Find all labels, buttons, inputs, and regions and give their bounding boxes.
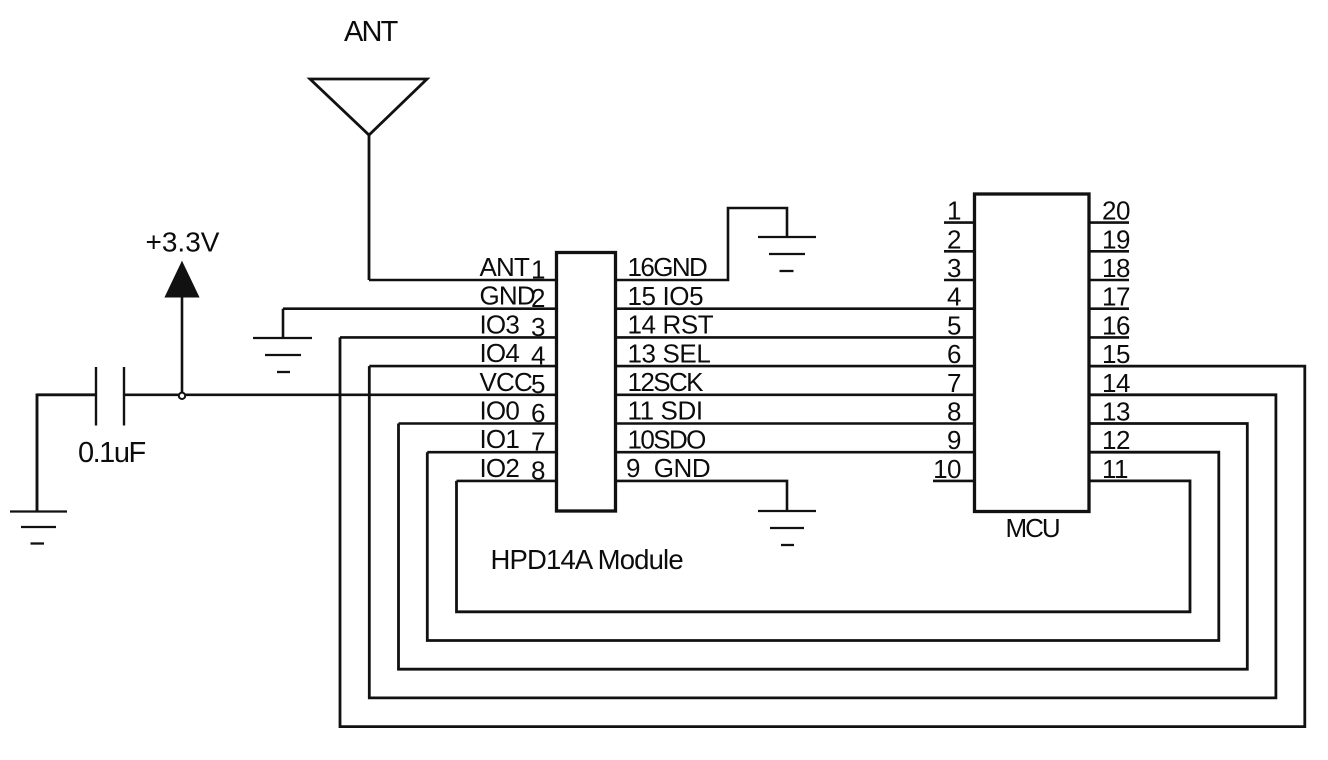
- wire 14 RST to MCU pin 5: [616, 336, 974, 339]
- U1 pin label IO3 3: [480, 309, 546, 341]
- wire antenna to HPD14A pin 1 ANT: [369, 279, 556, 282]
- U1 pin label GND 2: [480, 281, 546, 313]
- wire HPD14A pin 2 GND row: [283, 307, 556, 310]
- svg-text:1: 1: [947, 196, 961, 226]
- svg-text:15: 15: [1102, 339, 1130, 369]
- svg-text:8: 8: [531, 455, 545, 485]
- svg-text:10: 10: [933, 454, 961, 484]
- wire loop IO4 to MCU pin 14: [369, 366, 1276, 698]
- svg-text:14: 14: [1102, 368, 1130, 398]
- U2 pin 20 stub: [1089, 221, 1129, 224]
- power symbol +3.3V: [166, 263, 198, 395]
- U1 pin label IO0 6: [480, 396, 546, 428]
- IC U1 HPD14A body: [557, 253, 616, 512]
- ground at GND2: [253, 338, 312, 372]
- antenna ANT symbol: [310, 79, 427, 280]
- U1 pin label IO1 7: [480, 424, 546, 456]
- svg-text:HPD14A Module: HPD14A Module: [491, 544, 684, 575]
- wire IO0 row: [399, 422, 557, 425]
- U2 pin 17 stub: [1089, 307, 1129, 310]
- svg-text:7: 7: [531, 427, 545, 457]
- ground at pin 16 GND: [758, 237, 816, 271]
- ground below C1: [10, 512, 67, 544]
- svg-text:IO3: IO3: [480, 309, 520, 339]
- svg-text:16GND: 16GND: [628, 252, 708, 282]
- svg-text:IO2: IO2: [480, 453, 520, 483]
- svg-text:11 SDI: 11 SDI: [628, 396, 703, 426]
- svg-text:17: 17: [1102, 282, 1130, 312]
- svg-text:2: 2: [531, 283, 545, 313]
- svg-text:VCC: VCC: [480, 367, 533, 397]
- ground at pin 9 GND: [758, 511, 816, 545]
- wire IO1 row: [427, 451, 556, 454]
- U2 pin 19 stub: [1089, 250, 1129, 253]
- wire 10 SDO to MCU pin 9: [616, 451, 974, 454]
- svg-text:9 GND: 9 GND: [626, 453, 710, 483]
- wire 11 SDI to MCU pin 8: [616, 422, 974, 425]
- svg-text:4: 4: [947, 282, 961, 312]
- wire 15 IO5 to MCU pin 4: [616, 307, 974, 310]
- U2 pin 16 stub: [1089, 336, 1129, 339]
- svg-text:IO1: IO1: [480, 424, 520, 454]
- wire HPD14A pin 16 GND up: [616, 208, 787, 280]
- svg-text:IO0: IO0: [480, 396, 520, 426]
- wire HPD14A pin 9 GND: [616, 481, 787, 511]
- wire GND2 vertical: [282, 309, 285, 338]
- wire 13 SEL to MCU pin 6: [616, 365, 974, 368]
- svg-text:14 RST: 14 RST: [628, 310, 714, 340]
- svg-text:19: 19: [1102, 224, 1130, 254]
- capacitor C1: [96, 367, 124, 426]
- svg-text:10SDO: 10SDO: [628, 424, 706, 454]
- wire loop IO1 to MCU pin 12: [427, 452, 1219, 640]
- svg-text:11: 11: [1102, 454, 1128, 484]
- svg-text:12: 12: [1102, 425, 1130, 455]
- svg-text:5: 5: [947, 310, 961, 340]
- wire loop IO3 to MCU pin 15: [340, 337, 1305, 726]
- svg-text:7: 7: [947, 368, 961, 398]
- wire 12 SCK to MCU pin 7: [616, 393, 974, 396]
- svg-text:3: 3: [947, 253, 961, 283]
- wire left to capacitor C1: [37, 393, 96, 396]
- U2 pin 3 stub: [944, 279, 975, 282]
- svg-text:9: 9: [947, 425, 961, 455]
- svg-text:+3.3V: +3.3V: [146, 227, 220, 258]
- svg-text:0.1uF: 0.1uF: [78, 437, 145, 469]
- wire IO4 row: [369, 365, 556, 368]
- svg-text:4: 4: [531, 341, 545, 371]
- svg-text:6: 6: [531, 398, 545, 428]
- svg-text:ANT: ANT: [480, 252, 531, 282]
- svg-text:18: 18: [1102, 253, 1130, 283]
- U2 pin 10 stub: [933, 480, 975, 483]
- U2 pin 18 stub: [1089, 279, 1129, 282]
- svg-text:IO4: IO4: [480, 338, 520, 368]
- U1 pin label VCC 5: [480, 367, 546, 399]
- wire IO3 row: [340, 336, 556, 339]
- svg-text:6: 6: [947, 339, 961, 369]
- svg-text:2: 2: [947, 224, 961, 254]
- svg-text:8: 8: [947, 397, 961, 427]
- U2 pin 2 stub: [944, 250, 975, 253]
- svg-text:13: 13: [1102, 397, 1130, 427]
- svg-text:ANT: ANT: [344, 16, 399, 48]
- wire IO2 row: [457, 480, 557, 483]
- svg-text:13 SEL: 13 SEL: [628, 338, 711, 368]
- wire VCC row C1 to HPD14A pin 5: [124, 393, 556, 396]
- svg-text:20: 20: [1102, 196, 1130, 226]
- junction node VCC: [179, 393, 185, 399]
- wire loop IO0 to MCU pin 13: [399, 424, 1248, 670]
- svg-text:16: 16: [1102, 310, 1130, 340]
- IC U2 MCU body: [975, 194, 1090, 512]
- svg-text:GND: GND: [480, 281, 535, 311]
- U1 pin label ANT 1: [480, 252, 546, 284]
- svg-text:MCU: MCU: [1006, 513, 1059, 543]
- svg-text:5: 5: [531, 369, 545, 399]
- svg-text:15 IO5: 15 IO5: [628, 281, 704, 311]
- U2 pin 1 stub: [944, 221, 975, 224]
- U1 pin label IO4 4: [480, 338, 546, 370]
- svg-text:3: 3: [531, 312, 545, 342]
- wire loop IO2 to MCU pin 11: [457, 481, 1191, 612]
- svg-text:12SCK: 12SCK: [628, 367, 705, 397]
- wire C1 down to ground: [36, 394, 39, 512]
- U1 pin label IO2 8: [480, 453, 546, 485]
